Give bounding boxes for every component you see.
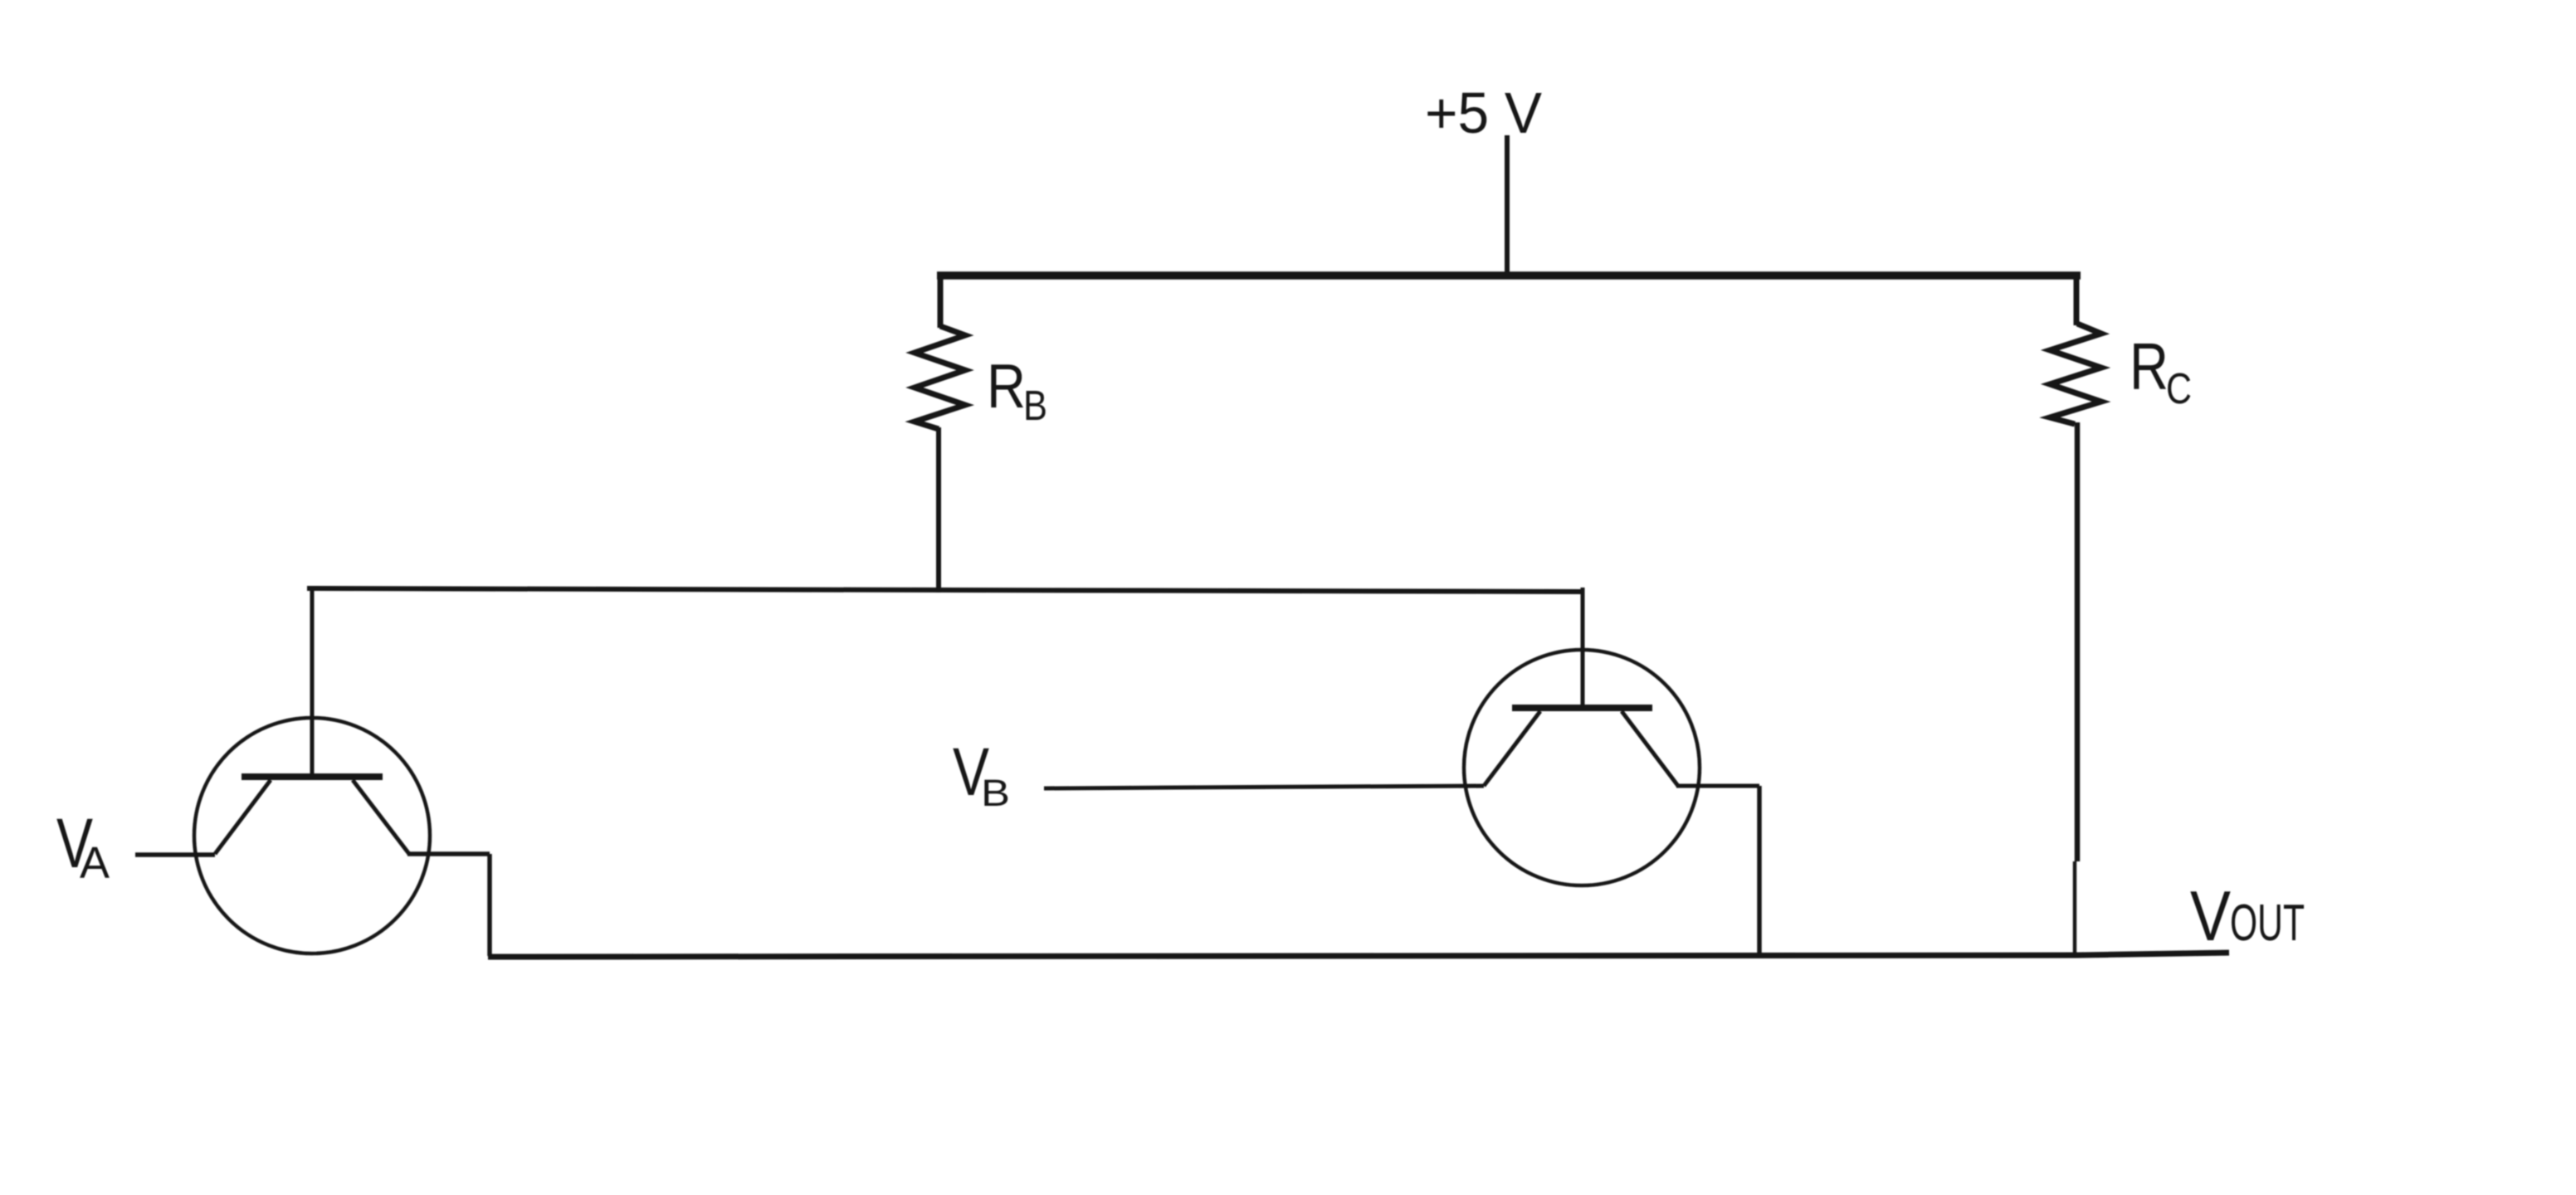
wire VA lead [135, 852, 215, 857]
label RB [987, 351, 1047, 429]
wire RC top lead [2074, 274, 2080, 325]
transistor Q1 right leg [353, 780, 409, 854]
transistor Q2 left leg [1484, 711, 1540, 786]
label VA [56, 804, 110, 888]
label RC [2130, 329, 2192, 413]
wire Q2 top lead [1581, 588, 1585, 708]
transistor Q2 base bar [1512, 705, 1652, 711]
wire Q1 down lead [487, 854, 492, 956]
wire bottom bus [488, 953, 2229, 957]
label VOUT [2190, 877, 2305, 956]
transistor Q2 right leg [1622, 711, 1678, 786]
wire base bus (Q1 collector-join to Q2 base) [307, 588, 1583, 592]
svg-text:B: B [981, 772, 1010, 814]
wire Q2 right stub [1676, 784, 1759, 788]
wire top rail [937, 271, 2081, 280]
svg-text:+5 V: +5 V [1425, 80, 1542, 145]
wire VB lead [1044, 786, 1484, 788]
resistor RC [2050, 324, 2101, 424]
resistor RB [915, 326, 965, 429]
transistor Q1 [194, 718, 430, 954]
svg-text:A: A [80, 838, 110, 888]
svg-text:V: V [2190, 877, 2231, 956]
transistor Q1 base bar [242, 773, 383, 780]
svg-text:C: C [2166, 365, 2192, 413]
wire RC bottom lead upper [2075, 422, 2081, 861]
wire RC bottom lead lower [2073, 861, 2077, 955]
wire +5V stub [1505, 135, 1510, 277]
svg-text:OUT: OUT [2230, 895, 2305, 952]
svg-text:R: R [987, 351, 1026, 421]
wire RB bottom lead [936, 427, 941, 593]
wire Q2 down lead [1757, 786, 1762, 956]
wire Q1 top lead [310, 588, 315, 777]
svg-text:R: R [2130, 329, 2169, 403]
wire RB top lead [938, 274, 944, 328]
transistor Q2 [1464, 650, 1700, 885]
label VB [953, 734, 1010, 814]
svg-text:B: B [1023, 382, 1047, 429]
transistor Q1 left leg [215, 780, 271, 854]
wire Q1 right stub [407, 851, 490, 856]
